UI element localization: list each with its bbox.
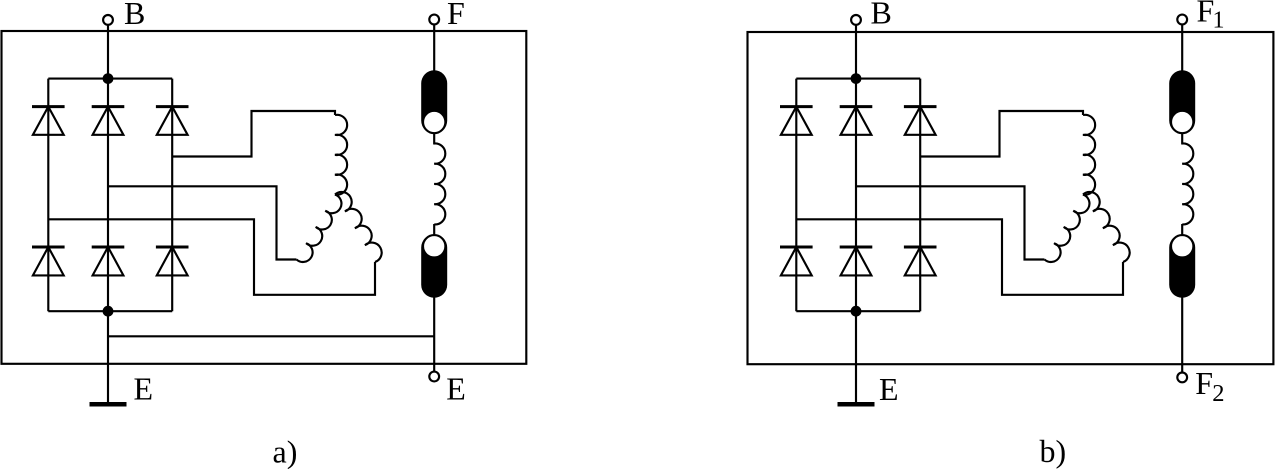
brush a: upper brush (black capsule)	[421, 70, 447, 133]
diode a-VD6	[156, 247, 189, 275]
wire: b rotor coil to lower slip ring	[1181, 224, 1183, 236]
terminal b F1 circle	[1177, 15, 1187, 25]
inductor: a rotor field winding coil	[434, 143, 445, 224]
wire: b positive bus (top)	[796, 78, 920, 80]
svg-text:B: B	[124, 0, 145, 31]
slip ring a: lower slip ring (white circle)	[423, 235, 445, 257]
wire: b field winding bottom lead	[1181, 297, 1183, 373]
housing box of alternator a)	[2, 31, 527, 364]
wire: b slip ring to rotor coil	[1181, 133, 1183, 145]
wire: a negative bus (bottom)	[48, 310, 172, 312]
wire: b phase V from middle column to stator	[856, 186, 1045, 259]
wire: a field winding bottom lead	[433, 297, 435, 372]
svg-text:F: F	[447, 0, 465, 31]
inductor: a stator winding phase U coil (vertical)	[335, 115, 347, 195]
wire: b field terminal wire (top)	[1181, 24, 1183, 72]
brush b: lower brush (black capsule)	[1169, 235, 1195, 298]
wire: b ground lead from negative bus	[855, 311, 857, 402]
wire: b middle diode column from terminal B	[855, 25, 857, 311]
wire: b left diode column	[795, 79, 797, 312]
wire: a phase V from middle column to stator	[108, 186, 297, 259]
inductor: b rotor field winding coil	[1182, 143, 1193, 224]
inductor: a stator winding phase V coil (lower-left diagonal)	[297, 195, 342, 262]
housing box of alternator b)	[748, 32, 1274, 364]
terminal a B (output) circle	[103, 15, 113, 25]
wire: b phase W from left column to stator	[796, 219, 1123, 294]
svg-text:E: E	[879, 371, 899, 407]
wire: a internal ground link from bridge negative to field return	[108, 335, 434, 337]
diode a-VD4	[32, 247, 65, 275]
slip ring b: lower slip ring (white circle)	[1171, 235, 1193, 257]
ground symbol a (terminal E)	[90, 402, 127, 407]
inductor: b stator winding phase U coil (vertical)	[1083, 115, 1095, 195]
inductor: a stator winding phase W coil (lower-right diagonal)	[335, 192, 382, 262]
svg-text:b): b)	[1040, 433, 1067, 469]
slip ring a: upper slip ring (white circle)	[423, 111, 445, 133]
wire: b negative bus (bottom)	[796, 310, 920, 312]
diode a-VD2	[92, 107, 125, 135]
diode a-VD5	[92, 247, 125, 275]
svg-text:E: E	[134, 371, 154, 407]
wire: b phase U from right column to stator	[920, 111, 1083, 157]
wire: a slip ring to rotor coil	[433, 133, 435, 145]
svg-text:2: 2	[1212, 380, 1224, 407]
wire: a ground lead from negative bus	[107, 311, 109, 402]
diode b-VD5	[840, 247, 873, 275]
wire: a right diode column	[171, 79, 173, 312]
wire: a positive bus (top)	[48, 78, 172, 80]
svg-text:B: B	[871, 0, 892, 31]
wire: a left diode column	[47, 79, 49, 312]
wire: a phase W from left column to stator	[48, 219, 375, 294]
wire: a phase U from right column to stator	[172, 111, 335, 157]
terminal a E circle (bottom)	[429, 372, 439, 382]
diode b-VD3	[904, 107, 937, 135]
diode a-VD1	[32, 107, 65, 135]
slip ring b: upper slip ring (white circle)	[1171, 111, 1193, 133]
node: b B+ junction dot	[851, 73, 862, 84]
node: b ground junction dot	[851, 306, 862, 317]
terminal a F circle	[429, 15, 439, 25]
wire: a field terminal wire (top)	[433, 24, 435, 72]
diode b-VD4	[780, 247, 813, 275]
wire: b right diode column	[919, 79, 921, 312]
inductor: b stator winding phase V coil (lower-left diagonal)	[1045, 195, 1090, 262]
diode a-VD3	[156, 107, 189, 135]
inductor: b stator winding phase W coil (lower-right diagonal)	[1083, 192, 1130, 262]
terminal b F2 circle (bottom)	[1177, 373, 1187, 383]
node: a ground junction dot	[103, 306, 114, 317]
diode b-VD2	[840, 107, 873, 135]
wire: a middle diode column from terminal B	[107, 25, 109, 311]
diode b-VD6	[904, 247, 937, 275]
ground symbol b (terminal E)	[838, 402, 875, 407]
svg-text:1: 1	[1213, 8, 1225, 34]
svg-text:F: F	[1195, 365, 1213, 401]
brush b: upper brush (black capsule)	[1169, 70, 1195, 133]
svg-text:E: E	[446, 371, 466, 407]
brush a: lower brush (black capsule)	[421, 235, 447, 298]
diode b-VD1	[780, 107, 813, 135]
wire: a rotor coil to lower slip ring	[433, 224, 435, 236]
svg-text:a): a)	[273, 434, 298, 469]
terminal b B (output) circle	[851, 15, 861, 25]
node: a B+ junction dot	[103, 73, 114, 84]
